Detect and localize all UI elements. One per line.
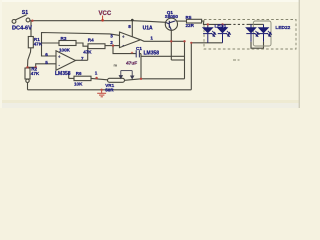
- potentiometer VR1: [108, 78, 125, 82]
- svg-text:VCC: VCC: [99, 11, 112, 17]
- switch S1: [12, 15, 30, 23]
- terminal circle bottom left: [26, 79, 29, 82]
- svg-text:R5: R5: [186, 15, 192, 20]
- svg-text:S8050: S8050: [165, 14, 179, 19]
- resistor R6: [69, 73, 108, 81]
- svg-text:R3: R3: [61, 36, 67, 41]
- wire LED3 LED4 anode bus: [248, 23, 264, 25]
- ground: [97, 90, 106, 97]
- solid LED module box: [253, 21, 271, 46]
- wire R5 to LED bus: [202, 21, 229, 24]
- wire LED3 LED4 cathode U: [251, 42, 264, 49]
- wire C1 right vertical: [140, 54, 142, 79]
- svg-text:m: m: [114, 62, 118, 67]
- svg-text:50R: 50R: [105, 88, 114, 93]
- wire R2 top: [27, 66, 29, 69]
- LED1: [203, 24, 216, 42]
- svg-text:+: +: [131, 52, 134, 57]
- wire Q1 collector to R5: [177, 20, 187, 22]
- wire Q1 base vertical: [170, 30, 172, 60]
- svg-text:8: 8: [128, 24, 131, 29]
- wire R4 left down to op2 out: [87, 46, 89, 60]
- resistor R3: [59, 41, 76, 46]
- wire R3 left: [42, 42, 60, 44]
- wire R1 bottom to divider node: [28, 48, 31, 68]
- op-amp U1A triangle: [120, 32, 141, 48]
- wire pin3 long: [42, 33, 120, 57]
- wire line C from C1 to right: [141, 55, 185, 57]
- svg-text:47K: 47K: [31, 71, 40, 76]
- wire LED bus dashed continuation: [229, 23, 248, 25]
- transistor Q1 circle: [165, 18, 177, 30]
- wire op2 output: [76, 59, 88, 61]
- resistor R2: [25, 68, 30, 79]
- resistor R5: [187, 19, 202, 23]
- resistor R4: [88, 44, 105, 49]
- svg-text:47uF: 47uF: [126, 60, 137, 66]
- svg-text:LM358: LM358: [55, 71, 71, 77]
- svg-text:DC4-6V: DC4-6V: [12, 25, 32, 31]
- svg-text:1: 1: [95, 71, 98, 76]
- LED3: [246, 24, 259, 41]
- svg-text:S1: S1: [22, 10, 28, 16]
- svg-text:47K: 47K: [83, 49, 92, 54]
- svg-text:R4: R4: [88, 37, 94, 42]
- wire LED cathode return: [191, 43, 222, 90]
- svg-text:LM358: LM358: [144, 50, 160, 56]
- VR1 wiper arrow: [119, 71, 133, 79]
- svg-text:R6: R6: [76, 71, 82, 76]
- wire right loop vertical: [184, 41, 186, 79]
- ground rail: [28, 89, 192, 91]
- wire bottom line VR1 right to loop: [125, 79, 185, 81]
- op-amp signs: [58, 34, 125, 68]
- svg-text:22R: 22R: [186, 23, 195, 28]
- wire R1 top: [30, 21, 32, 37]
- wire pin2 node to C1: [113, 46, 136, 54]
- svg-text:1: 1: [150, 35, 153, 40]
- wire R3 to R4: [76, 43, 88, 46]
- continuation tick: [233, 59, 240, 61]
- wire VCC rail: [30, 21, 166, 23]
- wire terminal to ground rail: [27, 83, 29, 90]
- wire U1A output pin1: [141, 40, 185, 42]
- resistor R1: [28, 37, 33, 48]
- svg-text:LED1: LED1: [215, 24, 227, 29]
- svg-text:-: -: [58, 63, 61, 69]
- LED4 LED22: [259, 24, 272, 41]
- svg-text:+: +: [58, 54, 61, 60]
- wire emitter jog: [171, 59, 184, 61]
- svg-text:5: 5: [45, 60, 48, 65]
- svg-text:2: 2: [110, 40, 113, 45]
- svg-text:+: +: [122, 34, 125, 40]
- wire divider node stub: [28, 66, 36, 68]
- svg-text:10K: 10K: [74, 81, 83, 86]
- svg-text:U1A: U1A: [143, 26, 153, 32]
- svg-text:100K: 100K: [59, 47, 71, 52]
- wire U1A power pin 8: [131, 21, 133, 37]
- svg-text:C1: C1: [136, 46, 142, 51]
- svg-text:6: 6: [45, 52, 48, 57]
- VCC symbol: [99, 11, 112, 22]
- op-amp U1B triangle: [56, 51, 76, 70]
- transistor Q1 internals: [166, 21, 175, 30]
- svg-text:7: 7: [81, 56, 84, 61]
- wire C1 right lead: [139, 53, 141, 55]
- wire pin5: [36, 64, 56, 68]
- svg-text:47K: 47K: [34, 42, 43, 47]
- svg-text:-: -: [122, 43, 125, 49]
- LED2: [218, 24, 231, 42]
- svg-text:3: 3: [110, 34, 113, 39]
- junction dot dark pin8: [131, 19, 134, 22]
- wire R4 right to pin2: [105, 45, 120, 47]
- dashed LED box: [204, 20, 296, 50]
- capacitor C1: [136, 50, 139, 57]
- svg-text:LED22: LED22: [275, 25, 290, 31]
- junction dots red: [26, 20, 223, 92]
